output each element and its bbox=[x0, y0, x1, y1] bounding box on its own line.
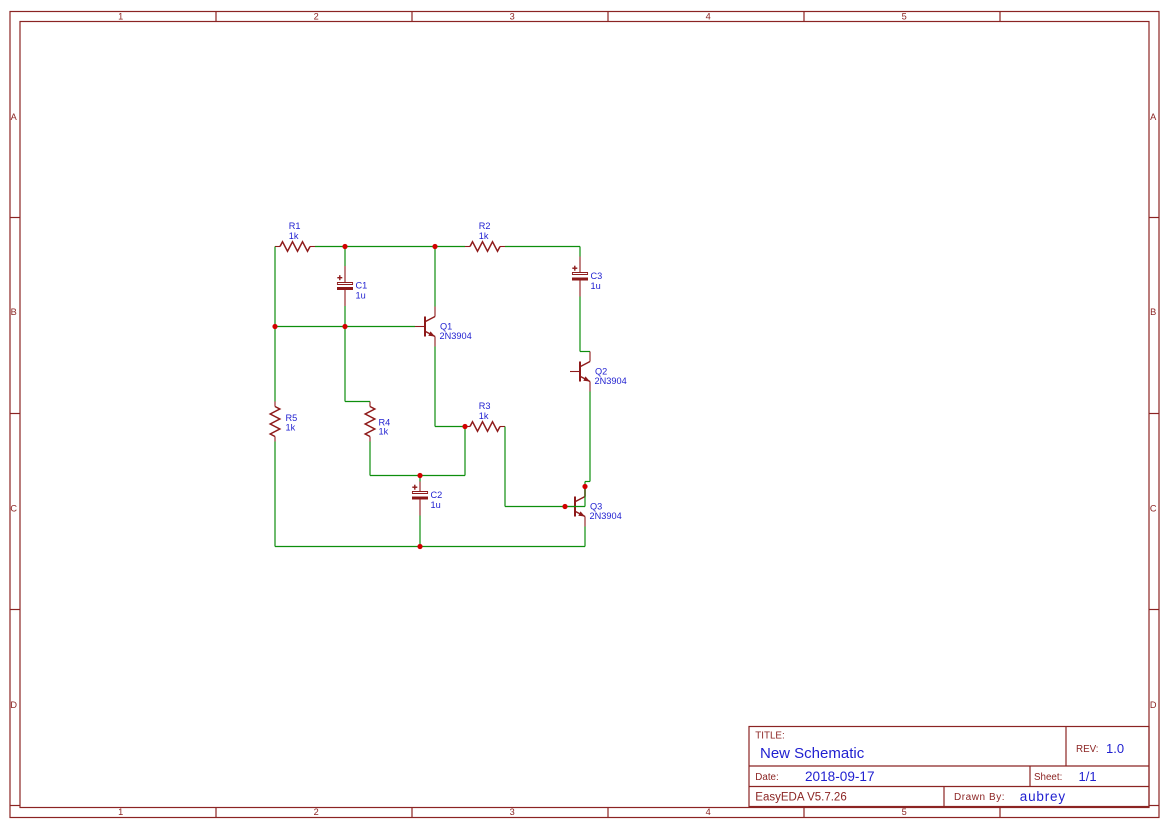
wire Q1 emitter vertical bbox=[434, 347, 436, 427]
svg-text:Drawn By:: Drawn By: bbox=[954, 792, 1005, 803]
wire C1 bottom to base node bbox=[344, 306, 346, 327]
wire R4 bottom vertical bbox=[369, 442, 371, 476]
svg-text:2N3904: 2N3904 bbox=[595, 376, 627, 386]
wire Q3 emitter vertical bbox=[584, 527, 586, 547]
svg-text:2: 2 bbox=[314, 12, 319, 22]
resistor R2 bbox=[465, 221, 505, 251]
junction top rail / Q1 collector bbox=[432, 244, 437, 249]
junction Q3 collector bbox=[582, 484, 587, 489]
junction C2 top bbox=[417, 473, 422, 478]
wire Q3 collector stub bbox=[584, 482, 586, 487]
wire left rail upper bbox=[274, 247, 276, 402]
junction top rail / C1 bbox=[342, 244, 347, 249]
wire R4 bottom horizontal bbox=[370, 475, 465, 477]
wire C3 top stub bbox=[579, 247, 581, 257]
wire Q2 collector jog bbox=[580, 351, 590, 353]
svg-text:2N3904: 2N3904 bbox=[590, 511, 622, 521]
svg-text:R2: R2 bbox=[479, 221, 491, 231]
junction C2 bottom rail bbox=[417, 544, 422, 549]
wire R3 node down to bottom loop bbox=[464, 427, 466, 476]
capacitor C1 bbox=[337, 266, 367, 306]
svg-text:A: A bbox=[1150, 112, 1157, 122]
svg-text:1k: 1k bbox=[286, 422, 296, 432]
svg-text:D: D bbox=[10, 700, 17, 710]
svg-text:1k: 1k bbox=[479, 411, 489, 421]
svg-text:4: 4 bbox=[706, 807, 711, 817]
svg-text:1: 1 bbox=[118, 807, 123, 817]
capacitor C3 bbox=[572, 257, 602, 297]
svg-text:5: 5 bbox=[902, 807, 907, 817]
wire Q1 emitter to R3 node bbox=[435, 426, 465, 428]
wire C1 top stub bbox=[344, 247, 346, 267]
svg-text:R3: R3 bbox=[479, 401, 491, 411]
junction Q3 base bbox=[562, 504, 567, 509]
svg-text:2018-09-17: 2018-09-17 bbox=[805, 769, 875, 784]
svg-text:1: 1 bbox=[118, 12, 123, 22]
svg-text:1u: 1u bbox=[356, 290, 366, 300]
wire VCC top rail segment R2-C3 bbox=[505, 246, 580, 248]
svg-text:Sheet:: Sheet: bbox=[1034, 772, 1062, 783]
svg-text:C1: C1 bbox=[356, 281, 368, 291]
wire C2 bottom vertical bbox=[419, 516, 421, 547]
wire bottom rail bbox=[275, 546, 585, 548]
svg-text:aubrey: aubrey bbox=[1020, 789, 1066, 804]
svg-text:Date:: Date: bbox=[755, 772, 778, 783]
svg-text:R1: R1 bbox=[289, 221, 301, 231]
resistor R3 bbox=[465, 401, 505, 431]
capacitor C2 bbox=[412, 482, 442, 516]
wire base node to R4 jog vertical bbox=[344, 327, 346, 402]
resistor R4 bbox=[365, 402, 390, 442]
svg-text:Q3: Q3 bbox=[590, 501, 602, 511]
svg-text:Q1: Q1 bbox=[440, 321, 452, 331]
transistor Q3 bbox=[565, 487, 622, 527]
transistor Q1 bbox=[415, 307, 472, 347]
junction left rail / Q1 base bbox=[272, 324, 277, 329]
wire Q2 emitter vertical bbox=[589, 392, 591, 482]
wire Q1 collector vertical bbox=[434, 247, 436, 307]
svg-text:3: 3 bbox=[510, 12, 515, 22]
svg-text:A: A bbox=[11, 112, 18, 122]
svg-text:B: B bbox=[11, 307, 17, 317]
svg-text:New Schematic: New Schematic bbox=[760, 745, 865, 762]
svg-text:C2: C2 bbox=[431, 490, 443, 500]
svg-text:REV:: REV: bbox=[1076, 744, 1099, 755]
svg-text:B: B bbox=[1150, 307, 1156, 317]
svg-text:C3: C3 bbox=[591, 271, 603, 281]
title block bbox=[749, 727, 1149, 807]
svg-text:R5: R5 bbox=[286, 413, 298, 423]
transistor Q2 bbox=[570, 352, 627, 392]
svg-text:Q2: Q2 bbox=[595, 366, 607, 376]
wire over Q3 collector pin (overlap) bbox=[584, 487, 586, 497]
wire Q3 collector node down to base wire bbox=[584, 497, 586, 507]
svg-text:D: D bbox=[1150, 700, 1157, 710]
wire R4 jog horizontal bbox=[345, 401, 370, 403]
svg-text:2N3904: 2N3904 bbox=[440, 331, 472, 341]
svg-text:1k: 1k bbox=[479, 231, 489, 241]
svg-text:2: 2 bbox=[314, 807, 319, 817]
svg-text:1u: 1u bbox=[431, 500, 441, 510]
resistor R1 bbox=[275, 221, 315, 251]
svg-text:1/1: 1/1 bbox=[1079, 769, 1097, 784]
junction Q1 base / C1 bbox=[342, 324, 347, 329]
svg-text:1u: 1u bbox=[591, 281, 601, 291]
wire Q2-Q3 jog horizontal bbox=[585, 481, 590, 483]
svg-text:1k: 1k bbox=[379, 426, 389, 436]
svg-text:3: 3 bbox=[510, 807, 515, 817]
svg-text:1k: 1k bbox=[289, 231, 299, 241]
wire R3 right down bbox=[504, 427, 506, 507]
junction R3 / Q1 emitter bbox=[462, 424, 467, 429]
svg-text:1.0: 1.0 bbox=[1106, 741, 1124, 756]
svg-text:5: 5 bbox=[902, 12, 907, 22]
svg-text:4: 4 bbox=[706, 12, 711, 22]
wire left rail lower bbox=[274, 442, 276, 547]
svg-text:C: C bbox=[1150, 503, 1157, 513]
wire VCC top rail segment R1-R2 bbox=[315, 246, 465, 248]
svg-text:C: C bbox=[10, 503, 17, 513]
wire Q1 base horizontal bbox=[275, 326, 415, 328]
svg-text:EasyEDA V5.7.26: EasyEDA V5.7.26 bbox=[755, 791, 846, 803]
wire C2 top stub bbox=[419, 476, 421, 482]
resistor R5 bbox=[270, 402, 297, 442]
wire Q3 base horizontal bbox=[505, 506, 585, 508]
svg-text:TITLE:: TITLE: bbox=[755, 731, 784, 742]
wire C3 bottom to Q2 bbox=[579, 297, 581, 352]
